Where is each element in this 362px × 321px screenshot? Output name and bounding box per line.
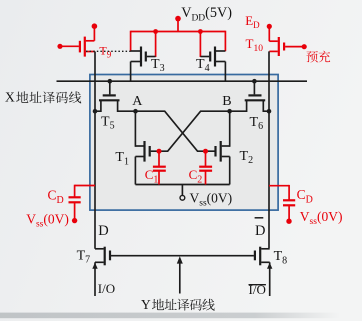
Y address decode line — [111, 255, 254, 257]
node T6 drain on bit line Dbar — [267, 109, 272, 114]
wire bit line Dbar to CD (red) — [269, 185, 289, 187]
svg-text:D: D — [98, 223, 108, 239]
svg-text:I/O: I/O — [98, 281, 115, 296]
CD left ground dot — [72, 218, 77, 223]
svg-text:VDD(5V): VDD(5V) — [181, 5, 232, 23]
capacitor CD left (red) — [74, 185, 76, 197]
node B dot — [227, 109, 232, 114]
wire I/O line — [94, 262, 96, 296]
wire T4 source to X line — [224, 62, 226, 82]
wire ED to T10 drain — [268, 26, 270, 41]
node T5 gate on X line — [108, 79, 113, 84]
svg-text:D: D — [255, 223, 265, 239]
I/O arrowhead — [92, 263, 97, 269]
bottom shadow band — [0, 313, 340, 319]
wire B to T1 gate (cross couple) — [151, 111, 230, 151]
transistor T3 — [140, 47, 142, 67]
bit line D — [94, 52, 96, 249]
memory cell boundary (blue box, gray fill) — [90, 75, 278, 211]
node T4 gate-VDD junction — [198, 29, 203, 34]
wire A down to T1 drain — [134, 111, 136, 147]
capacitor C2 (red) — [205, 151, 207, 166]
T9 drain terminal dot — [92, 23, 98, 29]
svg-text:Y: Y — [141, 297, 151, 312]
node T2 gate / C2 junction — [203, 149, 208, 154]
node T3 gate-VDD junction — [153, 29, 158, 34]
wire T3 source to X line — [130, 62, 132, 82]
transistor T9 (red) — [84, 37, 86, 57]
transistor T5 — [109, 81, 111, 94]
transistor T6 — [253, 81, 255, 94]
precharge terminal dot — [302, 44, 307, 49]
wire T4 gate to VDD (red) — [199, 32, 201, 58]
transistor T1 — [143, 141, 145, 162]
label yuchong (precharge) — [306, 51, 317, 62]
wire T4 drain (red) — [224, 31, 226, 52]
bit line Dbar — [268, 51, 270, 248]
capacitor CD right (red) — [288, 185, 290, 200]
transistor T4 — [214, 47, 216, 67]
wire A to T2 gate (cross couple) — [136, 111, 215, 151]
svg-text:B: B — [222, 94, 231, 109]
node T1 gate / C1 junction — [157, 149, 162, 154]
wire VDD stub — [177, 19, 179, 32]
capacitor C1 (red) — [158, 151, 160, 166]
wire B down to T2 drain — [229, 111, 231, 147]
node A dot — [133, 109, 138, 114]
CD right ground dot — [286, 219, 291, 224]
svg-text:A: A — [132, 94, 143, 109]
T9 gate terminal dot — [57, 44, 62, 49]
E_D terminal dot — [267, 24, 272, 29]
Y select arrow — [179, 263, 181, 294]
wire Vss stub — [181, 185, 183, 196]
X address decode line — [57, 80, 308, 82]
wire bit line D to CD (red) — [75, 185, 95, 187]
wire T1 source down — [134, 157, 136, 185]
node T5 source on bit line D — [93, 109, 98, 114]
transistor T2 — [220, 141, 222, 162]
wire I/O-bar line — [269, 262, 271, 296]
wire VDD rail — [131, 31, 226, 33]
wire T3 gate to VDD (red) — [155, 32, 157, 58]
Vss open terminal — [180, 195, 185, 200]
transistor T8 — [261, 248, 270, 250]
svg-text:X: X — [5, 90, 15, 105]
dotted wire T9 to T3 — [86, 50, 131, 52]
wire T2 source down — [229, 157, 231, 185]
node T6 gate on X line — [252, 79, 257, 84]
VDD terminal dot — [175, 16, 181, 22]
I/O-bar arrowhead — [267, 263, 272, 269]
wire cell source rail — [135, 184, 229, 186]
transistor T10 (red) — [278, 37, 280, 56]
transistor T7 — [95, 248, 104, 250]
wire T3 drain (red) — [130, 31, 132, 52]
wire T9 drain up — [93, 26, 95, 40]
